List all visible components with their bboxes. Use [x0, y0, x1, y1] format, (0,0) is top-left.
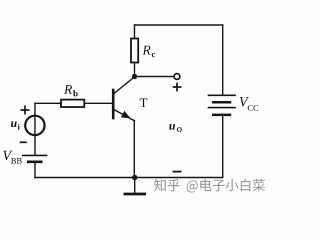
wire right branch bottom — [222, 116, 224, 177]
resistor Rb body — [61, 100, 84, 107]
ground stub — [134, 178, 136, 194]
battery V_CC plate 3 long — [209, 107, 236, 109]
source u_i circle — [25, 116, 44, 135]
label u_O — [169, 124, 175, 130]
wire R_c bottom lead — [134, 63, 136, 77]
resistor Rc body — [131, 39, 138, 63]
polarity plus at source — [21, 106, 28, 113]
node collector junction dot — [132, 74, 137, 79]
battery V_BB negative short thick plate — [28, 160, 41, 163]
label R_b — [64, 85, 72, 94]
polarity minus at source — [21, 141, 27, 143]
label V_BB — [3, 151, 12, 160]
node ground junction dot — [132, 175, 137, 180]
wire top rail — [135, 24, 223, 26]
wire R_c top lead — [134, 25, 136, 39]
wire left branch through source circle — [34, 103, 36, 155]
wire V_BB to bottom rail — [34, 163, 36, 178]
label u_i — [11, 122, 17, 128]
wire base lead — [85, 102, 113, 104]
label V_CC — [240, 97, 249, 106]
label R_c — [142, 46, 150, 55]
battery V_CC plate 1 long — [209, 94, 236, 96]
wire bottom rail — [35, 177, 223, 179]
battery V_CC plate 2 short thick — [213, 101, 230, 104]
polarity minus at output — [173, 171, 180, 173]
transistor T collector diagonal — [114, 77, 134, 93]
watermark zhihu text — [154, 179, 265, 193]
transistor Q T base bar — [112, 90, 115, 118]
transistor T emitter diagonal — [114, 110, 134, 121]
ground bar — [125, 193, 145, 196]
polarity plus at output — [174, 84, 181, 91]
transistor T emitter arrow head — [122, 112, 130, 118]
battery V_BB positive long plate — [23, 154, 47, 156]
battery V_CC plate 4 short thick — [213, 114, 230, 117]
wire source to R_b — [35, 102, 61, 104]
wire collector node to output terminal — [135, 76, 174, 78]
wire right branch top — [222, 25, 224, 95]
label T — [140, 99, 148, 108]
wire emitter down to ground rail — [133, 121, 135, 178]
terminal output open circle — [174, 74, 180, 80]
